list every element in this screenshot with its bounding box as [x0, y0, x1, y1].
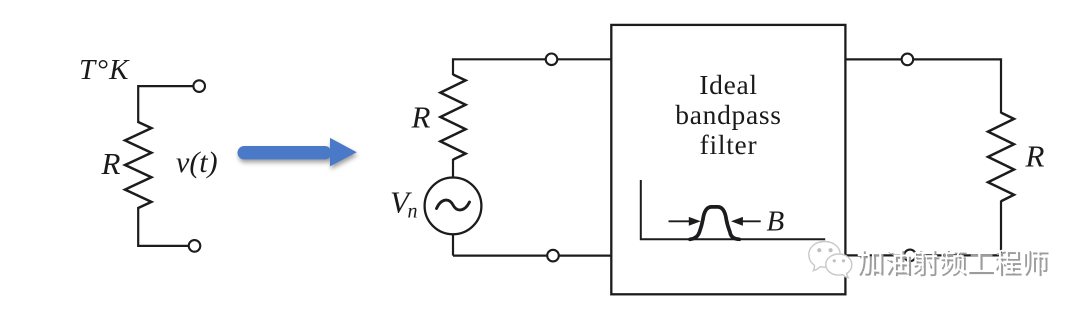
wire top-left	[138, 86, 193, 123]
wire source to bottom	[452, 234, 454, 255]
watermark wechat logo	[809, 242, 852, 278]
svg-text:R: R	[1025, 139, 1045, 174]
big bubble	[809, 242, 840, 271]
wire bottom-left	[138, 207, 189, 246]
resistor R (source side)	[440, 75, 465, 160]
sine symbol	[437, 200, 470, 210]
wire resistor to source	[452, 159, 454, 178]
svg-text:filter: filter	[700, 129, 758, 160]
terminal circle top-left	[193, 80, 205, 92]
terminal circle right-bottom	[904, 250, 916, 262]
small bubble	[826, 254, 852, 278]
svg-text:R: R	[101, 146, 121, 181]
terminal circle mid-top	[546, 54, 558, 66]
bandwidth arrow right	[741, 220, 761, 222]
blue arrow	[238, 138, 357, 166]
svg-text:T°K: T°K	[79, 54, 130, 86]
svg-text:v(t): v(t)	[176, 146, 218, 179]
svg-text:R: R	[411, 100, 431, 135]
terminal circle right-top	[902, 54, 914, 66]
wire noise-source bottom	[453, 255, 611, 257]
svg-text:B: B	[767, 206, 785, 238]
bandpass response hump	[690, 207, 739, 239]
noise source Vn circle	[425, 178, 482, 235]
wechat logo eyes	[817, 248, 845, 262]
frequency axis	[641, 180, 825, 239]
svg-text:bandpass: bandpass	[675, 99, 781, 130]
wire noise-source top	[453, 59, 611, 75]
ideal bandpass filter box	[611, 25, 845, 294]
terminal circle bottom-left	[189, 240, 201, 252]
terminal circle mid-bottom	[547, 250, 559, 262]
watermark text 加油射频工程师	[859, 251, 883, 276]
bandwidth arrow left	[669, 220, 691, 222]
wire load bottom	[845, 201, 1001, 256]
svg-text:Ideal: Ideal	[699, 69, 757, 100]
resistor R (load)	[988, 113, 1014, 202]
resistor R (left, thermal)	[125, 122, 151, 208]
wire load top	[845, 59, 1001, 113]
svg-text:n: n	[408, 201, 418, 223]
